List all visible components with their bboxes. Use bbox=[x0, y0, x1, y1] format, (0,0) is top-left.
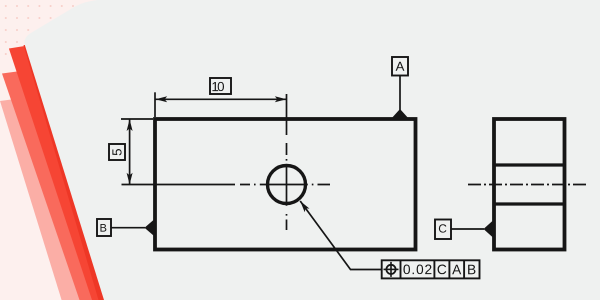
position symbol bbox=[384, 262, 399, 277]
red sheet stripe medium bbox=[2, 72, 95, 300]
red sheet stripe light bbox=[0, 99, 83, 300]
hole vertical centerline bbox=[286, 143, 288, 230]
hole circle bbox=[268, 166, 306, 204]
dimension line 5 bbox=[129, 119, 131, 185]
hole silhouette bottom line bbox=[494, 202, 565, 205]
dim10 arrowhead left bbox=[156, 96, 168, 102]
red sheet stripe bright bbox=[9, 45, 115, 300]
datum C bbox=[435, 220, 494, 240]
dim text 10 bbox=[212, 82, 224, 91]
dim text 5 bbox=[112, 149, 121, 155]
extension line dim5 top bbox=[121, 118, 153, 120]
extension line dim10 left bbox=[154, 92, 156, 117]
part outline (side view) bbox=[494, 119, 565, 250]
dim5 arrowhead bottom bbox=[127, 173, 133, 185]
datum B bbox=[97, 218, 156, 237]
red sheet stripe dark edge bbox=[24, 45, 105, 300]
extension line dim5 bottom / horizontal centerline solid bbox=[122, 184, 236, 186]
hole horizontal centerline bbox=[240, 184, 330, 186]
dim5 arrowhead top bbox=[127, 119, 133, 131]
part outline (front view) bbox=[155, 119, 416, 250]
feature control frame bbox=[382, 260, 480, 278]
hole silhouette top line bbox=[494, 163, 565, 166]
leader line to FCF bbox=[300, 201, 382, 270]
dim10 arrowhead right bbox=[275, 96, 287, 102]
dot grid bbox=[0, 0, 96, 58]
basic dim box 10 bbox=[210, 78, 231, 94]
datum A bbox=[391, 57, 410, 120]
side view centerline bbox=[468, 184, 587, 186]
basic dim box 5 bbox=[109, 144, 125, 160]
extension line dim10 right bbox=[286, 94, 288, 135]
leader arrowhead bbox=[300, 201, 309, 212]
dimension line 10 bbox=[155, 98, 287, 100]
